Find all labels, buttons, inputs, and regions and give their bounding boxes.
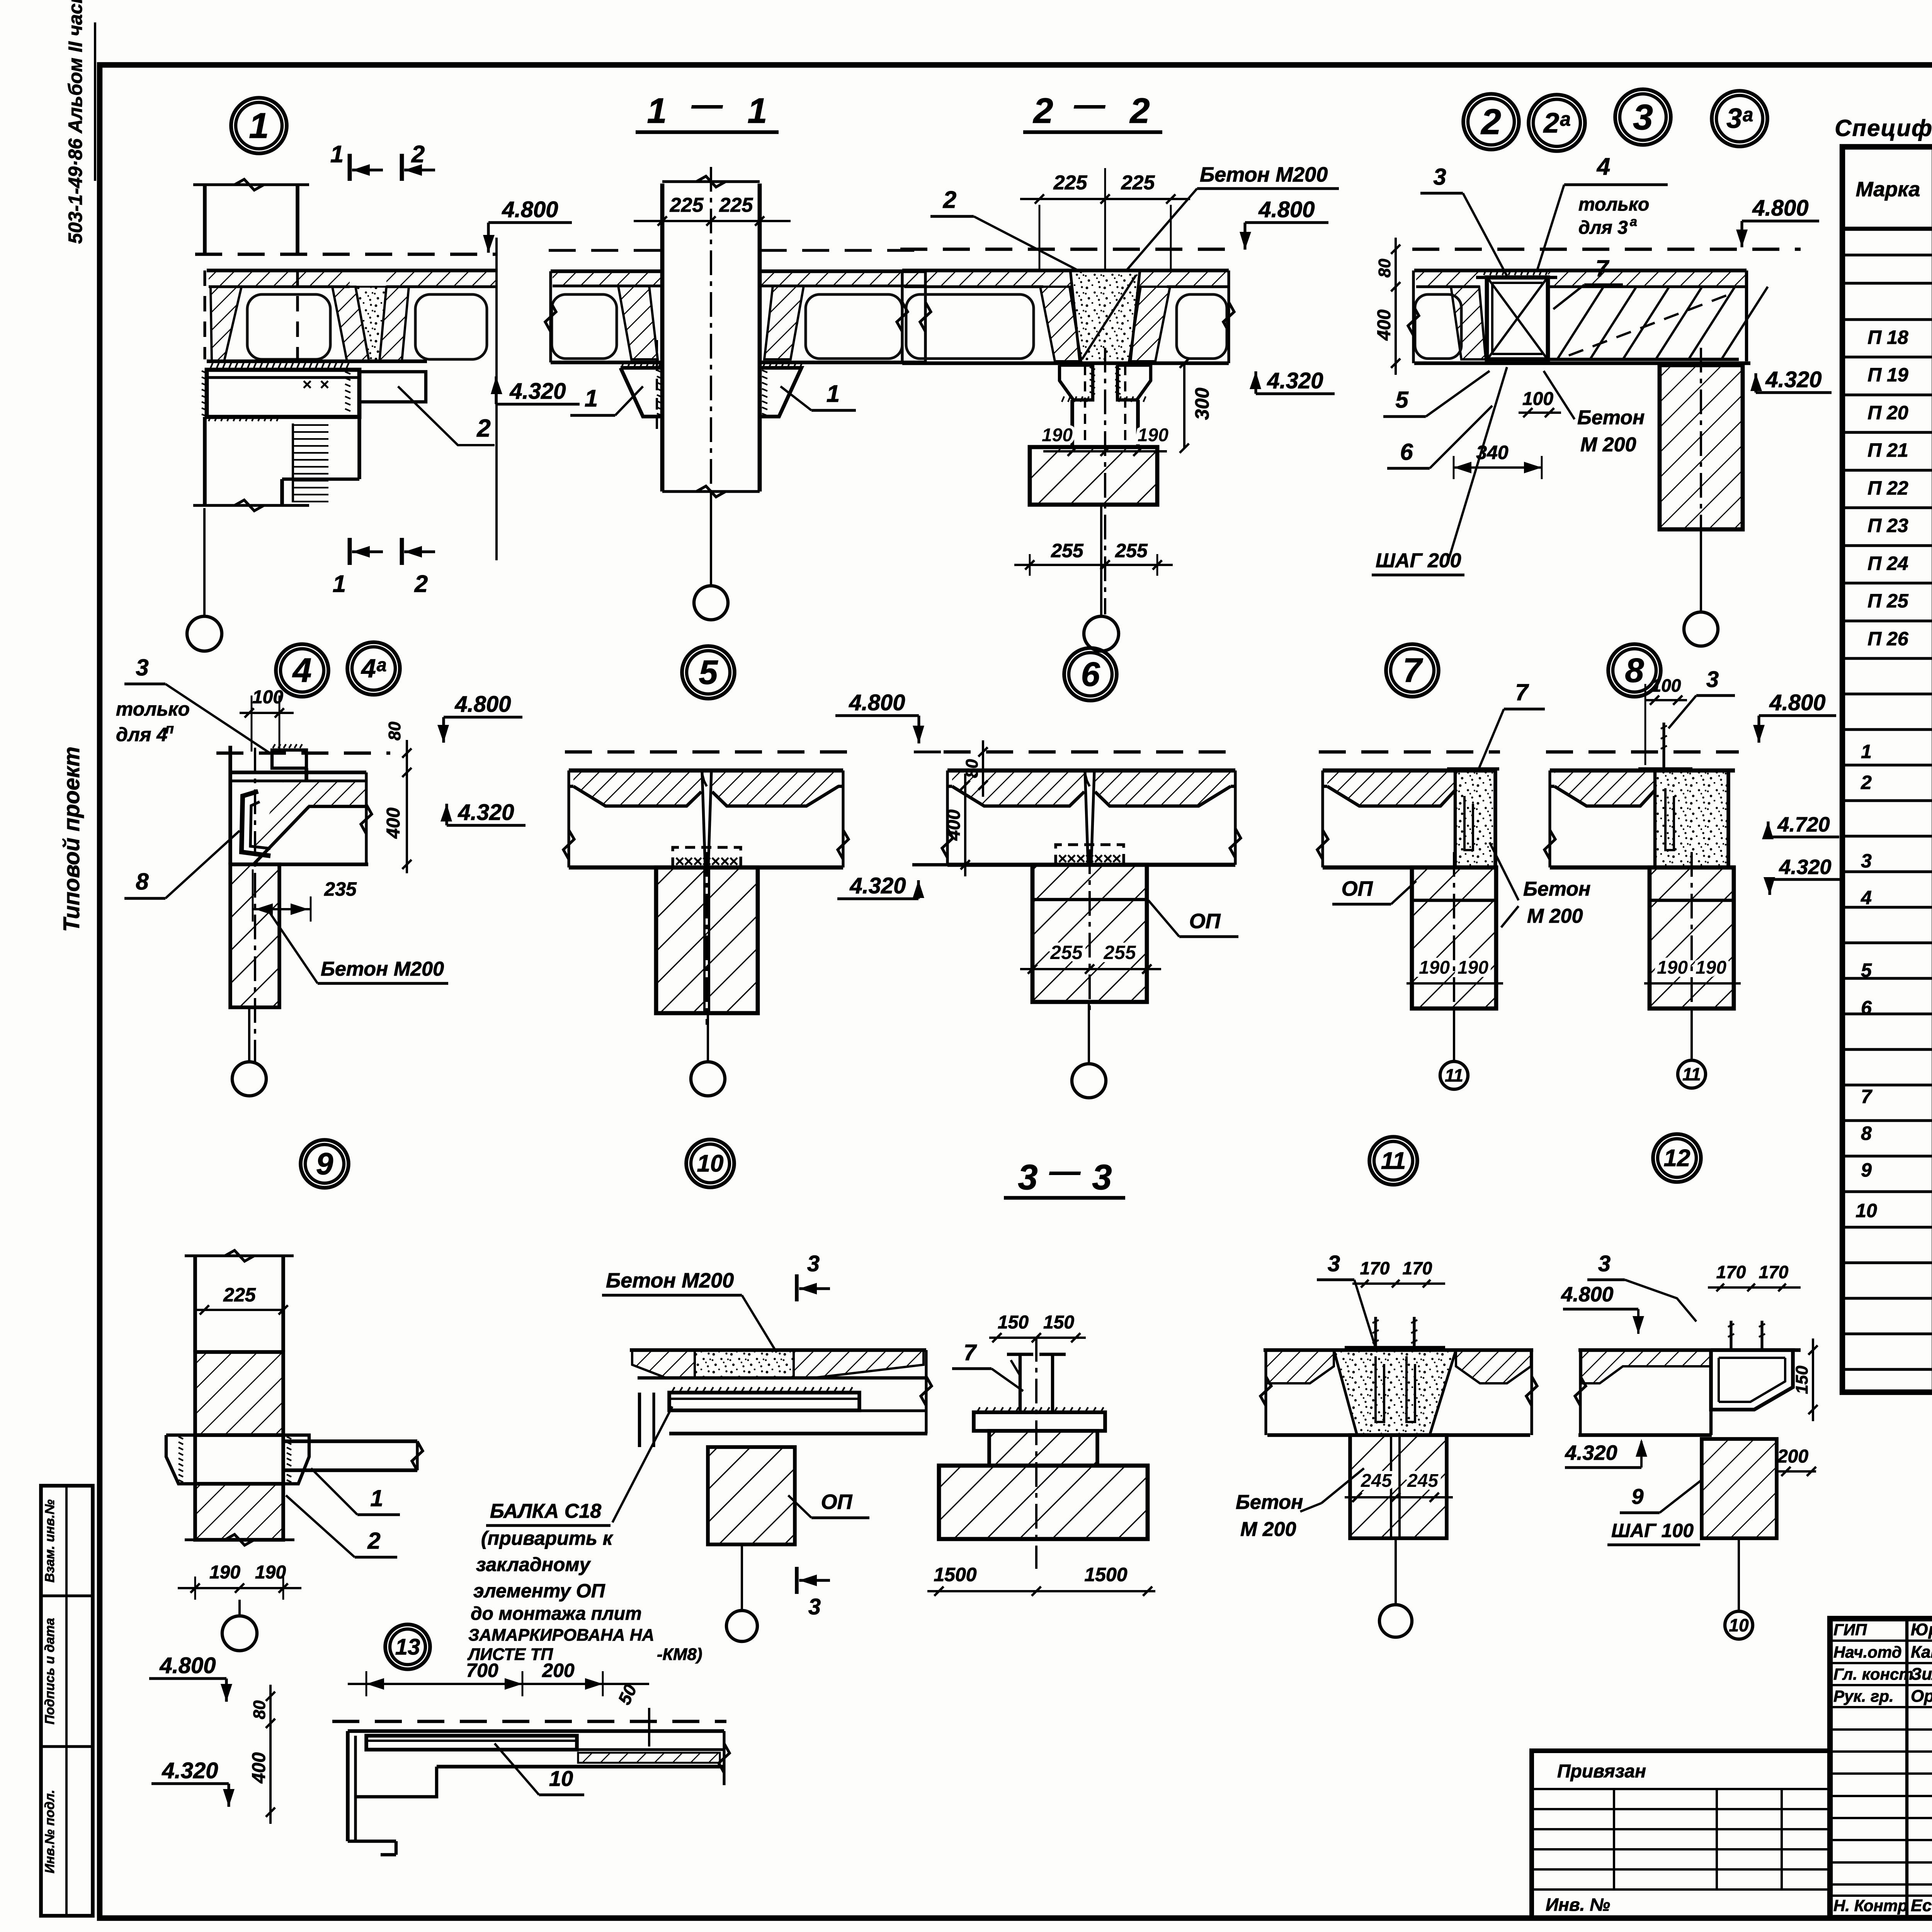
detail 1 right hollow outline — [415, 294, 487, 359]
detail 4 corbel diagonal edge — [253, 806, 309, 864]
detail 13 right thin hatch strip — [578, 1753, 720, 1763]
detail 1 lower wall left edge — [203, 417, 207, 505]
axis drop line — [1088, 1002, 1090, 1064]
slab bottom line — [947, 863, 1235, 867]
detail 11 anchor bolts above — [1374, 1317, 1377, 1350]
svg-text:П 21: П 21 — [1867, 439, 1908, 461]
svg-text:—: — — [1074, 87, 1105, 122]
svg-text:170: 170 — [1403, 1258, 1432, 1278]
section 3-3 right I-beam — [1051, 1354, 1054, 1412]
section 2-2 slab bottom line — [902, 361, 1229, 365]
svg-text:Инв. №: Инв. № — [1546, 1895, 1610, 1915]
svg-text:2: 2 — [1480, 102, 1501, 142]
column hatched body — [656, 867, 758, 1013]
vertical dimension 400 — [964, 774, 966, 876]
detail 7 joint rebar hook — [1464, 796, 1473, 850]
section 1-1 right slab top line — [760, 269, 925, 273]
section 1-1 left hollow outline — [552, 294, 617, 359]
svg-text:225: 225 — [719, 194, 753, 216]
svg-text:170: 170 — [1360, 1258, 1390, 1278]
detail 1 left rib hatched — [211, 287, 241, 361]
detail 13 panel bottom step — [348, 1840, 396, 1843]
detail 11 slab top line — [1264, 1348, 1533, 1352]
svg-text:БАЛКА С18: БАЛКА С18 — [490, 1500, 601, 1522]
svg-text:225: 225 — [670, 194, 704, 216]
section 1-1 column centerline — [710, 167, 712, 585]
detail 11 right flange hatch — [1456, 1350, 1531, 1383]
detail 11 slab breaks — [1260, 1376, 1271, 1406]
section 3-3 pedestal hatched — [989, 1431, 1097, 1466]
svg-text:П 20: П 20 — [1867, 402, 1908, 423]
section 2-2 right slab break — [1223, 302, 1234, 332]
section 1-1 right slab bottom line — [760, 361, 925, 364]
svg-text:Оруджева: Оруджева — [1911, 1687, 1932, 1706]
section 1-1 right slab break — [920, 302, 931, 332]
node circle 10 — [686, 1139, 734, 1187]
section 1-1 left slab break — [545, 302, 556, 332]
svg-text:190: 190 — [1419, 957, 1450, 978]
detail 11 left flange hatch — [1266, 1350, 1334, 1383]
vertical dimension 400 — [1395, 275, 1397, 375]
axis circle 11 — [1678, 1060, 1706, 1088]
monolithic joint dotted concrete — [1655, 770, 1728, 867]
section 2-2 axis dash — [900, 248, 1229, 251]
detail 3 slab bottom line — [1414, 361, 1750, 365]
section 2-2 joint diagonal line — [1082, 275, 1136, 359]
section 1-1 right rib hatched — [764, 286, 804, 359]
spec table row lines — [1842, 253, 1932, 256]
detail 1 slab bottom line — [207, 359, 427, 363]
detail 11 column hatched — [1350, 1435, 1447, 1538]
spec table header bottom line — [1842, 227, 1932, 231]
slab top flange hatch right — [1095, 770, 1231, 806]
axis drop line — [238, 1600, 241, 1616]
detail 9 slab seat lines — [283, 1439, 417, 1443]
slab top flange hatch left — [573, 770, 701, 806]
axis circle — [726, 1611, 757, 1641]
svg-text:5: 5 — [699, 653, 718, 691]
svg-text:4.800: 4.800 — [454, 692, 511, 717]
axis circle — [187, 616, 222, 651]
svg-text:3: 3 — [1706, 667, 1719, 692]
detail 11 anchor plate — [1345, 1346, 1445, 1350]
section 2-2 slab top line — [902, 269, 1229, 272]
svg-text:4.720: 4.720 — [1777, 813, 1830, 836]
panel joint gap lines — [1085, 772, 1088, 865]
detail 9 wall hatched upper — [195, 1352, 283, 1435]
detail 1 wall upper part — [203, 185, 207, 255]
svg-text:100: 100 — [1522, 389, 1553, 409]
section 1-1 left slab top line — [551, 269, 662, 273]
svg-text:только: только — [116, 698, 190, 720]
column centerline — [1690, 852, 1693, 1020]
svg-text:400: 400 — [383, 808, 404, 839]
detail 9 wall top edges — [193, 1256, 197, 1352]
svg-text:12: 12 — [1664, 1145, 1690, 1172]
axis drop line — [248, 1007, 250, 1062]
detail 3 left flange hatch — [1416, 270, 1480, 287]
svg-text:п: п — [165, 721, 174, 736]
svg-text:Бетон М200: Бетон М200 — [606, 1269, 734, 1292]
title block signature rows — [1830, 1639, 1932, 1642]
svg-text:11: 11 — [1445, 1065, 1463, 1085]
section 2-2 column shaft edges — [1070, 400, 1074, 447]
monolithic joint dotted concrete — [1455, 770, 1495, 867]
section 2-2 column centerline — [1104, 348, 1106, 614]
node circle 2ᵃ — [1529, 95, 1585, 151]
svg-text:2: 2 — [1129, 91, 1150, 131]
svg-text:4.320: 4.320 — [1779, 855, 1831, 879]
svg-text:3: 3 — [1328, 1251, 1340, 1276]
privyazan rows — [1532, 1788, 1830, 1790]
detail 1 flange hatch right — [386, 270, 497, 287]
svg-text:П 23: П 23 — [1867, 515, 1908, 536]
detail 10 mid lines — [638, 1376, 926, 1379]
svg-text:3: 3 — [808, 1594, 821, 1619]
svg-text:150: 150 — [998, 1312, 1029, 1333]
column centerline — [1453, 852, 1455, 1020]
svg-text:8: 8 — [1861, 1122, 1872, 1144]
svg-text:П 22: П 22 — [1867, 477, 1908, 499]
axis circle 10 — [1725, 1611, 1753, 1639]
detail 1 joint rib right hatched — [379, 287, 409, 361]
svg-text:Рук. гр.: Рук. гр. — [1833, 1687, 1894, 1705]
svg-text:4.800: 4.800 — [1752, 196, 1808, 221]
svg-text:Юрин: Юрин — [1911, 1620, 1932, 1639]
section 1-1 left slab axis dash — [549, 249, 662, 252]
section 2-2 right hollow outline — [1177, 294, 1227, 359]
detail 12 slab left break — [1575, 1376, 1586, 1406]
detail 10 upper slab lines — [630, 1348, 926, 1352]
vertical dimension 80 — [1395, 238, 1397, 298]
svg-text:9: 9 — [1631, 1484, 1643, 1509]
bottom-left inventory strip box — [41, 1486, 93, 1916]
axis circle — [691, 1062, 725, 1096]
svg-text:Гл. конст: Гл. конст — [1833, 1665, 1913, 1683]
vertical dimension 80 — [982, 740, 984, 797]
column centerline — [706, 852, 708, 1025]
detail 12 flange hatch — [1581, 1350, 1711, 1383]
svg-text:300: 300 — [1191, 388, 1213, 420]
svg-text:6: 6 — [1400, 439, 1413, 465]
detail 9 wall hatched lower — [195, 1484, 283, 1540]
detail 3 right edge line — [1745, 270, 1748, 361]
detail 13 axis dash — [332, 1720, 726, 1723]
svg-text:11: 11 — [1682, 1064, 1701, 1084]
detail 1 wall dashes through slab — [203, 270, 206, 359]
slab axis dashed line — [1319, 750, 1500, 753]
svg-text:Катков: Катков — [1911, 1643, 1932, 1662]
svg-text:Н. Контр: Н. Контр — [1833, 1896, 1908, 1915]
detail 4 wall right edge upper — [304, 768, 308, 781]
detail 1 section cut mark 2 bottom — [400, 538, 404, 565]
weld x marks — [1059, 855, 1066, 862]
section 3-3 centerline — [1035, 1337, 1037, 1569]
section 2-2 left flange hatch — [904, 270, 1070, 287]
svg-text:а: а — [1630, 214, 1637, 229]
node circle 12 — [1653, 1134, 1701, 1182]
svg-text:(приварить к: (приварить к — [481, 1527, 614, 1549]
detail 12 slab top line — [1578, 1348, 1801, 1352]
axis circle — [1684, 612, 1718, 646]
svg-text:Спецификация к схеме распол: Спецификация к схеме расположения плит п… — [1835, 115, 1932, 141]
detail 9 slab seat break — [412, 1441, 423, 1471]
section 1-1 left rib hatched — [618, 286, 658, 359]
section 2-2 vertical dim 300 — [1183, 363, 1185, 448]
svg-text:-КМ8): -КМ8) — [657, 1645, 702, 1664]
section 1-1 hidden dash line left — [656, 340, 658, 435]
slab left break mark — [942, 828, 953, 858]
svg-text:190: 190 — [1458, 957, 1488, 978]
title block signature columns — [1905, 1619, 1908, 1918]
svg-text:1: 1 — [333, 571, 346, 597]
detail 10 right break — [921, 1376, 932, 1406]
axis drop line — [741, 1544, 743, 1611]
section 1-1 right hollow outline — [806, 294, 902, 359]
slab left break mark — [1544, 830, 1555, 859]
svg-text:7: 7 — [1861, 1086, 1872, 1107]
svg-text:2: 2 — [411, 141, 425, 168]
svg-text:1: 1 — [585, 385, 598, 412]
svg-text:Бетон: Бетон — [1577, 406, 1645, 429]
svg-text:Бетон М200: Бетон М200 — [321, 958, 444, 980]
svg-text:190: 190 — [1138, 425, 1168, 446]
axis drop line — [203, 508, 206, 616]
svg-text:4.320: 4.320 — [1765, 367, 1821, 392]
detail 8 top anchor plate — [1638, 767, 1692, 770]
detail 12 lower lines to bracket — [1709, 1410, 1713, 1435]
svg-text:255: 255 — [1050, 942, 1083, 963]
slab right break mark — [838, 830, 849, 859]
svg-text:4.320: 4.320 — [162, 1758, 218, 1783]
detail 13 lower slab line — [437, 1765, 724, 1769]
spec table outer frame — [1842, 147, 1932, 1392]
vertical dimension 400 — [269, 1712, 272, 1824]
svg-text:80: 80 — [1375, 259, 1394, 277]
axis circle — [1084, 616, 1119, 651]
svg-text:Привязан: Привязан — [1557, 1761, 1646, 1782]
svg-text:170: 170 — [1716, 1262, 1746, 1282]
section 1-1 column bottom break — [662, 490, 760, 493]
panel joint gap lines — [702, 772, 705, 867]
svg-text:190: 190 — [1657, 957, 1688, 978]
svg-text:3: 3 — [1433, 164, 1446, 190]
detail 1 right extension line — [495, 238, 498, 560]
svg-text:4: 4 — [1596, 153, 1610, 180]
detail 8 joint rebar hooks — [1665, 788, 1674, 850]
slab left break mark — [1317, 830, 1328, 859]
svg-text:10: 10 — [697, 1150, 724, 1177]
section 1-1 column right edge — [758, 184, 762, 492]
detail 12 slab bottom line — [1578, 1433, 1712, 1437]
svg-text:400: 400 — [944, 810, 964, 841]
svg-text:Зильберток: Зильберток — [1911, 1665, 1932, 1684]
svg-text:Бетон: Бетон — [1523, 878, 1590, 900]
detail 13 left panel edge — [346, 1731, 350, 1841]
axis circle — [1072, 1064, 1106, 1098]
svg-text:Типовой проект: Типовой проект — [59, 747, 84, 932]
svg-text:255: 255 — [1103, 942, 1136, 963]
svg-text:9: 9 — [316, 1146, 333, 1181]
detail 4 axis dash — [216, 752, 390, 755]
detail 4 flange bottom edge right — [308, 805, 366, 808]
svg-text:503-1-49·86 Альбом II часть 1: 503-1-49·86 Альбом II часть 1 — [65, 0, 86, 244]
svg-text:1: 1 — [330, 141, 344, 168]
svg-text:10: 10 — [1855, 1200, 1877, 1221]
detail 3 column centerline — [1700, 348, 1702, 603]
svg-text:5: 5 — [1861, 959, 1872, 981]
detail 3 right web dashed diagonal — [1569, 294, 1731, 355]
section 1-1 dim 225/225 — [634, 220, 791, 222]
detail 1 hollow outline — [247, 294, 330, 359]
detail 3 right slab hatched web — [1549, 269, 1747, 272]
svg-text:до монтажа плит: до монтажа плит — [471, 1604, 642, 1624]
slab axis dashed line — [565, 750, 847, 753]
detail 4 slab right break — [361, 804, 372, 834]
section 3-3 base plate — [974, 1412, 1105, 1431]
detail 9 wall bottom break — [185, 1538, 294, 1541]
axis drop line — [1395, 1538, 1397, 1605]
node circle 3 — [1615, 89, 1671, 145]
detail 3 slab left break — [1408, 306, 1419, 335]
vertical dimension 80 — [269, 1685, 272, 1735]
slab top line — [569, 769, 843, 773]
section 2-2 weld bracket left — [1060, 365, 1093, 400]
detail 1 joint dotted concrete — [355, 287, 386, 361]
detail 4 wall centerline — [254, 748, 256, 1063]
inventory strip inner vertical — [65, 1486, 68, 1916]
svg-text:150: 150 — [1043, 1312, 1074, 1333]
title block outer frame — [1830, 1619, 1932, 1918]
svg-text:П 18: П 18 — [1867, 327, 1908, 348]
svg-text:9: 9 — [1861, 1159, 1872, 1181]
detail 4 slab bottom line — [230, 862, 368, 866]
svg-text:4: 4 — [292, 651, 312, 689]
detail 4 vertical dims 80 and 400 — [406, 740, 408, 873]
detail 1 section cut mark 1 bottom — [348, 538, 352, 565]
svg-text:170: 170 — [1759, 1262, 1789, 1282]
section 3-3 base mass hatched — [939, 1466, 1148, 1539]
svg-text:10: 10 — [1729, 1615, 1749, 1635]
column centerline — [1088, 849, 1091, 1014]
detail 12 column hatched — [1702, 1439, 1777, 1538]
detail 1 wall face ladder hatch — [292, 423, 294, 502]
svg-text:4.800: 4.800 — [1769, 690, 1825, 715]
detail 4 rebar hook thick — [241, 791, 270, 856]
node circle 6 — [1064, 648, 1117, 701]
node circle 2 — [1463, 94, 1519, 150]
svg-text:Есина: Есина — [1911, 1896, 1932, 1915]
detail 1 slab top line — [207, 269, 497, 272]
section 1-1 column left edge — [660, 184, 665, 492]
svg-text:190: 190 — [255, 1562, 286, 1583]
detail 9 weld teeth right — [287, 1437, 291, 1439]
svg-text:4: 4 — [1861, 887, 1872, 908]
detail 10 joint dotted zone — [695, 1350, 794, 1378]
slab bottom line — [569, 866, 843, 870]
svg-text:1: 1 — [827, 381, 840, 407]
detail 3 column hatched — [1660, 365, 1743, 529]
detail 1 wall bottom break — [193, 504, 309, 507]
slab axis dashed line — [1546, 750, 1739, 753]
detail 3 left rib hatched — [1451, 287, 1486, 359]
svg-text:245: 245 — [1361, 1471, 1392, 1491]
svg-text:3: 3 — [1018, 1158, 1037, 1197]
svg-text:2: 2 — [367, 1528, 380, 1554]
detail 11 joint dotted trapezoid — [1334, 1350, 1456, 1435]
svg-text:для 3: для 3 — [1578, 218, 1628, 238]
section 2-2 monolith joint dotted — [1070, 270, 1140, 363]
node circle 7 — [1386, 644, 1439, 697]
svg-text:только: только — [1578, 194, 1649, 215]
svg-text:11: 11 — [1381, 1148, 1406, 1174]
detail 11 slab bottom line — [1267, 1433, 1530, 1437]
detail 10 slab bottom line — [669, 1432, 927, 1435]
svg-text:П 19: П 19 — [1867, 364, 1908, 386]
svg-text:235: 235 — [324, 878, 357, 900]
detail 13 slab right break — [719, 1743, 730, 1773]
svg-text:3: 3 — [1861, 850, 1872, 872]
column cap line — [1650, 899, 1734, 902]
svg-text:для 4: для 4 — [116, 724, 167, 745]
vertical dimension 150 — [1812, 1338, 1814, 1421]
svg-text:4.320: 4.320 — [1565, 1441, 1617, 1464]
node circle 1 — [231, 98, 287, 153]
svg-text:4.800: 4.800 — [502, 197, 558, 222]
section 2-2 weld bracket right — [1117, 365, 1151, 400]
svg-text:П 24: П 24 — [1867, 553, 1908, 574]
weld x marks — [676, 858, 683, 865]
detail 3 right web sparse hatch — [1557, 287, 1604, 359]
detail 3 slab top line — [1414, 269, 1747, 272]
svg-text:400: 400 — [1374, 310, 1395, 341]
svg-text:340: 340 — [1476, 442, 1509, 463]
detail 1 flange hatch left — [209, 270, 350, 287]
slab bottom line — [1550, 866, 1735, 870]
detail 13 slab top line — [348, 1729, 724, 1733]
slab flange bottom edge line — [947, 785, 952, 788]
section 2-2 right rib hatched — [1129, 287, 1170, 361]
detail 1 weld tick row under slab — [211, 362, 213, 368]
axis circle 11 — [1440, 1061, 1468, 1089]
svg-text:2: 2 — [943, 187, 956, 213]
detail 8 right edge line — [1726, 770, 1730, 867]
axis drop line — [1738, 1538, 1740, 1611]
detail 4 anchor channel top — [272, 750, 306, 768]
detail 10 section cut 3 bottom — [795, 1567, 799, 1594]
note balka C18 leader — [612, 1406, 672, 1522]
svg-text:Инв.№ подл.: Инв.№ подл. — [43, 1790, 57, 1874]
detail 8 anchor bolt above slab — [1662, 723, 1665, 770]
detail 3 anchor top plate — [1476, 276, 1557, 279]
axis circle — [222, 1616, 257, 1651]
detail 7 top anchor line — [1447, 767, 1499, 770]
svg-text:190: 190 — [1696, 957, 1726, 978]
svg-text:3ᵃ: 3ᵃ — [1726, 103, 1753, 134]
svg-text:1: 1 — [370, 1485, 383, 1511]
svg-text:ЗАМАРКИРОВАНА НА: ЗАМАРКИРОВАНА НА — [468, 1626, 654, 1645]
svg-text:80: 80 — [385, 721, 404, 740]
svg-text:элементу ОП: элементу ОП — [473, 1580, 605, 1602]
node circle 4 — [276, 644, 328, 697]
svg-text:4.800: 4.800 — [1561, 1283, 1613, 1306]
detail 3 left hollow outline — [1415, 294, 1461, 359]
axis drop line — [710, 494, 712, 586]
node circle 4ᵃ — [347, 642, 400, 695]
detail 3 channel X bracing — [1488, 279, 1546, 358]
detail 1 weld tick row under channel — [209, 416, 211, 421]
svg-text:ОП: ОП — [1342, 877, 1373, 900]
